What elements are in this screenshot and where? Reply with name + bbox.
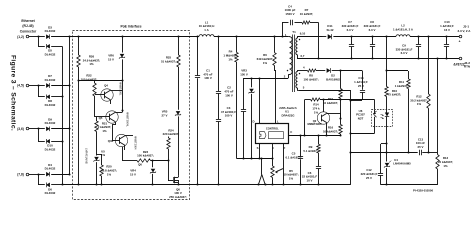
svg-text:0.1 &#181;F: 0.1 &#181;F [285,155,301,159]
svg-text:6.3 V: 6.3 V [401,51,408,55]
zener VR5 [175,111,181,116]
resistor R14 [311,98,341,101]
node VR6 top [121,35,123,37]
input terminal (1,2) [17,35,29,39]
svg-text:Q6: Q6 [138,162,142,166]
U1 internal arrow shape [260,132,267,139]
resistor R6 [273,37,276,124]
diode D3 label [45,25,56,33]
diode D5 label [45,49,56,57]
transistor Q30 [112,134,133,150]
L2 label [393,24,414,32]
Q2 label [307,119,322,126]
svg-text:S: S [257,146,259,150]
Q5 part number [126,112,130,127]
svg-text:6.3 V: 6.3 V [347,28,354,32]
R4 label [223,50,237,62]
capacitor C13 [420,150,438,156]
C7 label [342,20,359,32]
R13 label [438,156,453,168]
wire U1 F pin [282,144,284,186]
figure caption 'Figure 3 - Schematic.' [9,55,16,131]
capacitor C16 clamp [241,78,246,160]
negative bus wire [62,46,64,185]
svg-text:DL4032: DL4032 [45,167,56,171]
svg-text:10 V: 10 V [307,179,313,183]
node Q5 collector [121,109,123,112]
svg-text:LMR431AIM5: LMR431AIM5 [85,148,89,164]
resistor R11 [407,71,410,154]
output terminal J3-2 [453,57,465,66]
svg-text:C: C [290,130,292,134]
node bottom diode D10 to bus [61,140,63,142]
node Q2 collector [325,134,327,136]
R6 label [257,53,274,65]
R9 label [303,145,317,153]
C12 label [361,168,378,180]
diode D8 label [45,99,56,107]
VR6 label [108,54,114,62]
Q4 label [104,84,108,88]
R11 label [395,80,409,88]
transformer T1 label [292,30,296,34]
input terminal (7,8) [17,172,29,176]
R16 label [323,126,338,134]
svg-text:N3T: N3T [358,117,364,121]
R15 label [323,97,338,105]
svg-text:Ethernet: Ethernet [21,19,35,23]
resistor R24 [167,137,172,182]
svg-text:(RJ-45): (RJ-45) [22,24,33,28]
resistor R12 [427,37,430,154]
node positive bus at top rail [68,35,70,37]
svg-text:100 k&#937;: 100 k&#937; [81,77,98,81]
wire secondary rail [352,36,397,38]
node Y-cap to secondary return [317,57,319,59]
svg-text:MMBT2064: MMBT2064 [134,136,138,150]
wire opto collector [341,100,375,110]
wire feedback node [349,151,417,153]
diode D8 [46,94,62,99]
diode D10 label [45,144,56,152]
svg-text:RTN: RTN [464,65,470,69]
node R25 top [177,35,179,37]
wire (3,6) to junction [29,128,38,130]
resistor R13 [436,153,439,185]
wire junction down (3,6) [38,129,45,142]
resistor R8 [304,69,317,72]
svg-text:1%: 1% [289,177,294,181]
svg-text:75 &#937;: 75 &#937; [388,93,402,97]
wire Q30 base [112,125,115,141]
wire drain node [244,78,289,80]
svg-text:LM4040AIM5: LM4040AIM5 [393,162,411,166]
svg-text:15 V: 15 V [130,172,136,176]
svg-text:1500 V: 1500 V [285,12,294,16]
svg-text:(4,5): (4,5) [17,84,24,88]
R24 label [163,128,180,136]
capacitor C10 [444,35,449,59]
svg-text:250 m&#937;: 250 m&#937; [169,195,187,199]
transistor Q4 [95,89,122,104]
capacitor C2 [216,37,221,119]
output terminal J3-1 [459,35,462,43]
mosfet Q6 [172,175,180,186]
wire (7,8) to junction [29,174,38,176]
D11 label [327,24,334,32]
svg-text:DPA423G: DPA423G [282,113,296,117]
Q30 label [108,139,114,143]
svg-text:CONTROL: CONTROL [266,126,279,130]
diode D10 [46,139,62,144]
svg-text:Q4: Q4 [104,84,108,88]
T1 secondary winding [296,37,323,59]
T1 core [293,35,295,93]
J3-1 label [458,25,472,33]
wire U1 source [258,144,260,160]
C1 label [203,69,212,81]
zener VR4 [150,159,156,185]
wire C12 branch [381,143,387,145]
PoE Interface dashed box [73,31,190,200]
inductor L1 [199,35,214,37]
C3 label [221,106,236,118]
VR4 label [130,169,136,177]
wire C pin riser [303,100,310,137]
C13 label [416,137,425,149]
Q6 gate label [138,162,142,166]
resistor R25 [177,55,180,67]
resistor R10 [385,71,388,109]
svg-text:DL4002: DL4002 [45,29,56,33]
U1 CONTROL text [266,126,279,130]
node junction (4,5) [37,84,39,86]
zener VR3 [249,77,255,159]
svg-text:6,7: 6,7 [301,54,305,58]
capacitor C3 [216,120,221,186]
diode D11 [323,34,352,39]
C10 label [440,20,454,32]
svg-text:MMBT3906: MMBT3906 [307,122,322,126]
svg-text:1%: 1% [443,164,448,168]
diode D9 label [45,118,56,126]
svg-text:27 V: 27 V [162,113,168,117]
node bottom diode D8 to bus [61,95,63,97]
node junction (1,2) [37,35,39,37]
capacitor C1 [195,37,200,186]
L1 label [199,20,215,32]
VR5 label [162,110,168,118]
svg-text:1%: 1% [228,57,233,61]
svg-text:DL4032: DL4032 [45,52,56,56]
R23 label [137,150,154,158]
svg-text:1 k&#937;: 1 k&#937; [395,84,409,88]
node top diode D4 to bus [68,173,70,175]
U1 name label [279,106,296,118]
diode D9 [38,126,70,131]
node top diode D7 to bus [68,84,70,86]
diode D5 [46,44,62,49]
T1 primary phase dot [287,70,289,72]
diode D2 [316,68,341,73]
svg-text:MMBT3904L: MMBT3904L [126,112,130,127]
wire bias return to rail [350,90,352,185]
U5 label [101,149,106,157]
C5 label [285,151,301,159]
C8 label [364,20,381,32]
diode D6 label [45,187,56,195]
C6 label [302,171,317,183]
Q6 label [169,187,187,199]
C15 label [354,76,368,88]
capacitor C5 [298,134,303,185]
diode D3 [38,34,62,39]
VR3 label [240,69,248,77]
svg-text:1 &#181;H, 2 A: 1 &#181;H, 2 A [393,27,414,31]
svg-text:Q5: Q5 [99,116,103,120]
svg-text:100 &#937;: 100 &#937; [303,77,318,81]
resistor R22 [93,81,96,117]
J3-2 label [464,61,470,69]
T1 bias phase dot [299,73,301,75]
drawing number PI-4329-010506 [413,188,434,192]
node R26 bottom rail [77,183,79,185]
svg-text:1%: 1% [263,61,268,65]
node R4 top [235,35,237,37]
wire secondary return [297,58,459,60]
R14 label [312,103,320,115]
svg-text:16 V: 16 V [444,28,450,32]
wire bias winding return [299,90,351,92]
resistor R16 [339,100,342,137]
wire source node [237,158,273,160]
Q4 part number [119,82,123,96]
svg-text:MMBTA06L: MMBTA06L [119,82,123,96]
wire junction down (1,2) [38,37,45,47]
positive bus wire [69,37,71,175]
zener VR6 [119,54,125,59]
node junction (3,6) [37,127,39,129]
wire (1,2) to junction [29,36,38,38]
svg-text:1%: 1% [417,102,422,106]
resistor R7 [302,21,310,24]
capacitor C8 [370,35,375,59]
T1 pin 4 label [303,65,305,69]
node R6 top [273,35,275,37]
diode D6 [46,183,62,188]
wire VR6 branch [122,37,124,113]
wire U5 to R20 [97,154,102,156]
opto LED [385,109,389,127]
svg-text:100 k&#937;: 100 k&#937; [137,154,154,158]
svg-text:1%: 1% [102,129,107,133]
node top diode D9 to bus [68,127,70,129]
R10 label [388,89,402,97]
wire bias to C15 [341,70,362,72]
svg-text:1%: 1% [314,110,319,114]
T1 pin 1 label [285,33,287,37]
node C2 top [217,35,219,37]
transistor Q5 [95,111,122,125]
capacitor C9 [416,35,421,59]
wire R10 branch top [385,35,387,71]
svg-text:DL4032: DL4032 [45,103,56,107]
wire junction down (7,8) [38,174,45,185]
svg-text:BAV19WS: BAV19WS [326,77,340,81]
capacitor C12 [378,144,383,185]
shunt reference U4 [384,153,391,186]
R7 label [300,8,314,16]
capacitor C7 [349,35,354,59]
svg-text:100 V: 100 V [204,76,212,80]
T1 pin 2 label [284,74,286,78]
optocoupler U6 box [372,110,393,127]
potentiometer R5 on X pin [271,144,283,186]
C2 label [224,86,233,98]
Ethernet (RJ-45) Connector heading [20,19,37,34]
svg-text:DL4032: DL4032 [45,147,56,151]
R22 label [81,74,98,82]
R20 label [101,165,117,177]
diode D7 [38,83,70,88]
svg-text:1%: 1% [107,172,112,176]
wire source fan to rail [257,157,266,185]
svg-text:10 k&#937;: 10 k&#937; [323,101,338,105]
opto transistor [373,110,376,127]
svg-text:51 k&#937;: 51 k&#937; [161,59,176,63]
T1 primary winding [288,37,292,79]
R26 value label [83,54,101,66]
U1 pin C label [290,130,292,134]
input terminal (4,5) [17,84,29,88]
C9 label [396,43,413,55]
wire U1 drain [258,77,260,123]
capacitor C15 [349,71,365,102]
node R10 R11 tie [385,69,408,71]
svg-text:DL4032: DL4032 [45,78,56,82]
T1 pin 6,7 label [301,54,305,58]
wire secondary return riser [436,57,438,152]
svg-text:(3,6): (3,6) [17,127,24,131]
transistor Q2 [317,98,341,135]
svg-text:(7,8): (7,8) [17,172,24,176]
svg-text:DL4032: DL4032 [45,121,56,125]
U1 pin X label [272,146,274,150]
svg-text:5.1 &#937;: 5.1 &#937; [303,149,317,153]
svg-text:3.3 V, 2 A: 3.3 V, 2 A [458,29,472,33]
svg-text:25 V: 25 V [418,145,424,149]
wire R25 branch [178,37,180,175]
svg-text:150 V: 150 V [240,73,248,77]
capacitor C6 [316,153,321,186]
wire junction down (4,5) [38,86,45,97]
node junction (7,8) [37,173,39,175]
R21 label [98,121,112,133]
resistor R4 [235,37,238,159]
wire C pin [289,135,341,137]
wire top rail after L1 [214,36,288,38]
svg-text:SL42: SL42 [327,28,334,32]
wire bottom rail secondary [381,184,438,186]
svg-text:DL4032: DL4032 [45,191,56,195]
T1 pin 9,10 label [300,32,306,36]
svg-text:10 &#937;: 10 &#937; [300,12,314,16]
svg-text:+: + [459,40,461,44]
R8 label [303,74,318,82]
U5 part number vertical [85,148,89,164]
wire opto LED cathode [385,127,387,154]
node R12 top [427,35,429,37]
shunt regulator U5 [94,154,100,186]
U1 pin F label [284,146,286,150]
svg-text:15 V: 15 V [108,57,114,61]
node bias [339,69,341,71]
wire top rail primary [51,36,199,38]
U4 label [393,158,411,166]
R12 label [410,94,428,106]
svg-text:L: L [277,119,279,123]
svg-text:(1,2): (1,2) [17,35,24,39]
U1 internal rect [269,132,284,139]
wire R23 to gate node [151,160,169,162]
svg-text:100 V: 100 V [225,93,233,97]
U6 label [356,109,365,121]
resistor R20 [100,154,103,186]
T1 secondary phase dot [299,39,301,41]
T1 bias winding [296,71,304,91]
svg-text:PI-4329-010506: PI-4329-010506 [413,188,434,192]
Q30 part number [134,136,138,150]
wire Q30 to R23 [122,147,137,161]
wire secondary rail after L2 [410,36,459,38]
C4 label [285,4,296,16]
svg-text:Connector: Connector [20,30,37,34]
svg-text:D: D [252,119,254,123]
svg-text:Figure 3 – Schematic.: Figure 3 – Schematic. [9,55,16,131]
capacitor C4 [291,20,293,26]
svg-text:1%: 1% [89,62,94,66]
wire bottom rail primary [62,184,351,186]
opto light arrows [381,114,384,119]
node Y-cap left [281,35,283,37]
inductor L2 [396,35,410,37]
diode D4 label [45,163,56,171]
wire Y-cap loop [282,23,319,59]
R5 label [283,169,298,181]
U1 pin S label [257,146,259,150]
U1 pin D label [252,119,254,123]
resistor R26 [77,55,80,67]
svg-text:T1: T1 [292,30,296,34]
svg-text:25 V: 25 V [366,176,372,180]
node A wire [77,79,123,81]
wire R26 branch [78,37,80,185]
PoE Interface heading [120,24,141,28]
svg-text:100 V: 100 V [225,114,233,118]
svg-text:220 k&#937;: 220 k&#937; [163,132,180,136]
svg-text:10 k&#937;: 10 k&#937; [323,130,338,134]
resistor R21 [95,117,98,154]
D2 label [326,74,340,82]
svg-text:9,10: 9,10 [300,32,306,36]
wire opto emitter [349,127,374,135]
resistor R15 [339,71,342,101]
T1 pin 5 label [303,86,305,90]
svg-text:PoE Interface: PoE Interface [120,24,141,28]
R25 label [161,55,176,63]
node R26 top [77,35,79,37]
input terminal (3,6) [17,127,29,131]
